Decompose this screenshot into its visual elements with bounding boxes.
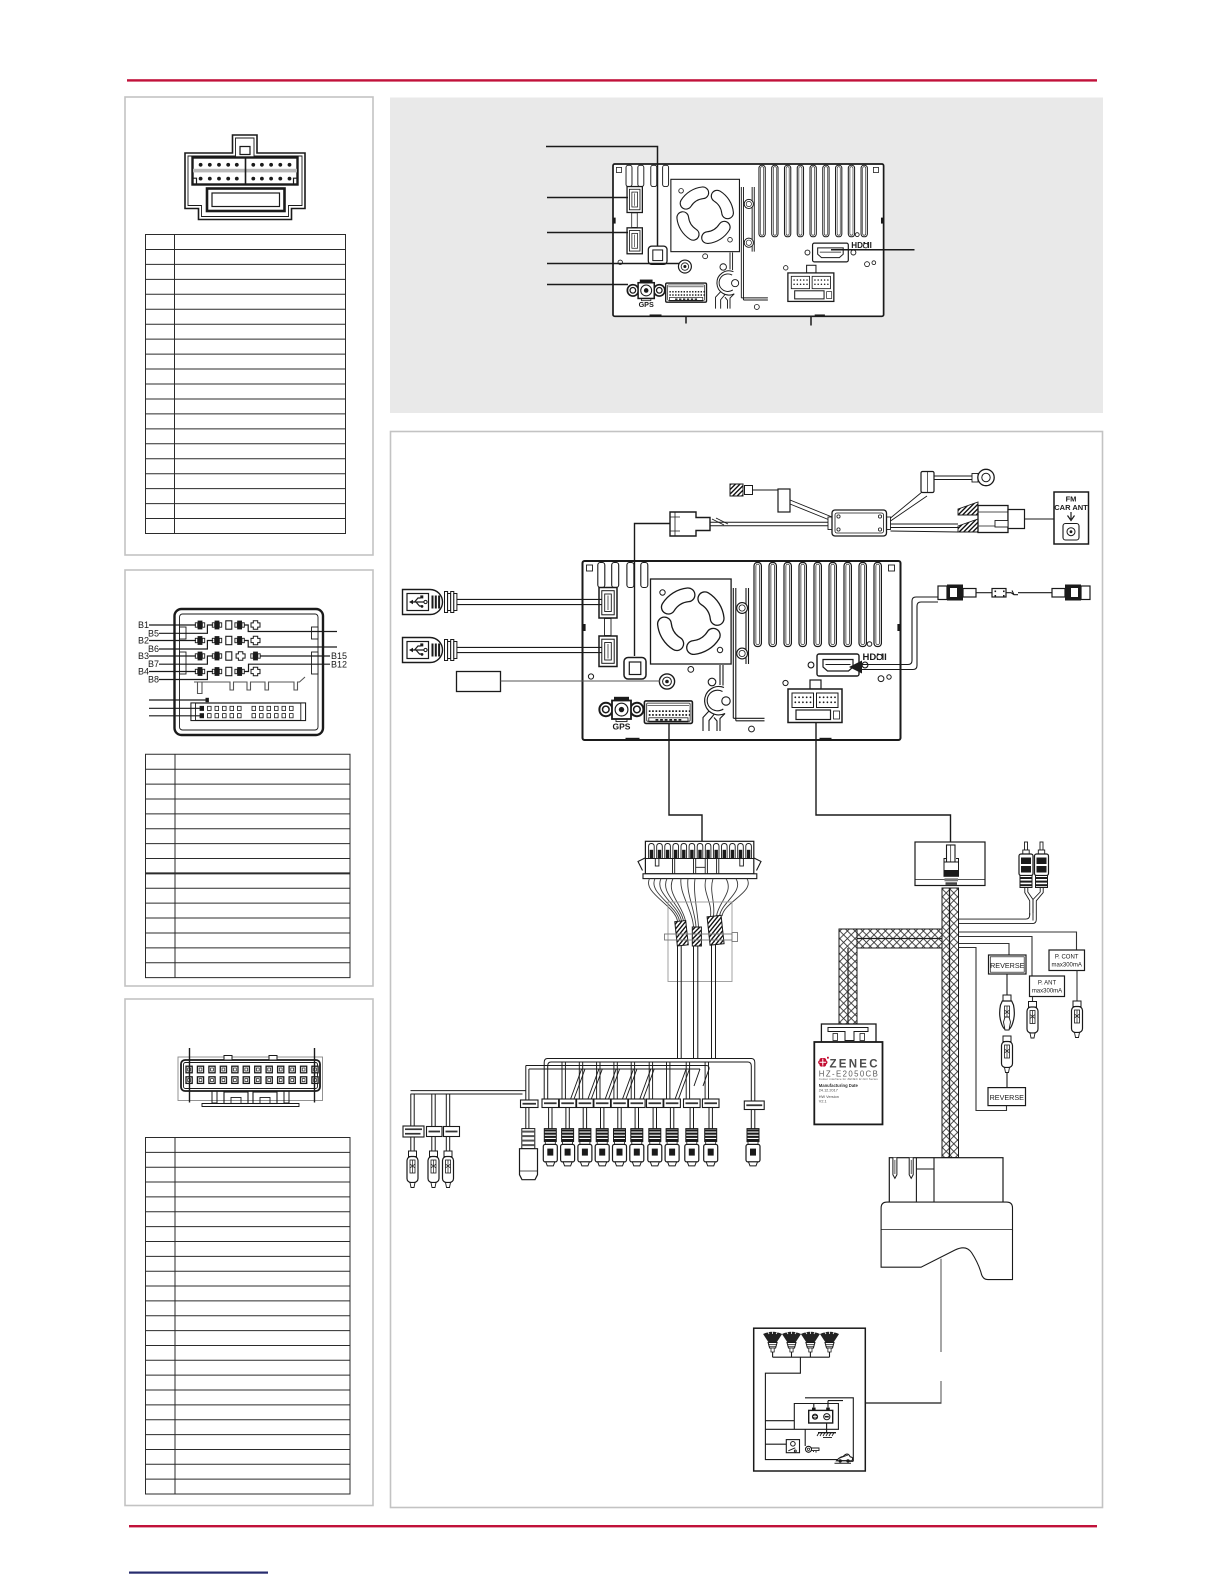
svg-text:V2.1: V2.1 [819,1099,827,1103]
svg-text:24.12.2017: 24.12.2017 [819,1089,838,1093]
svg-text:P. CONT: P. CONT [1055,955,1079,961]
svg-text:REVERSE: REVERSE [990,1093,1025,1102]
svg-text:Manufacturing Date: Manufacturing Date [819,1083,859,1088]
svg-text:Colour interface for ZENEC E>G: Colour interface for ZENEC E>GO Series [819,1077,879,1081]
svg-text:B5: B5 [148,628,159,638]
svg-text:B8: B8 [148,675,159,685]
svg-text:B12: B12 [331,659,347,669]
svg-text:CAR ANT: CAR ANT [1054,503,1088,512]
svg-text:B7: B7 [148,659,159,669]
svg-text:B6: B6 [148,644,159,654]
svg-text:HW Version: HW Version [819,1095,839,1099]
svg-text:P. ANT: P. ANT [1038,981,1057,987]
svg-text:max300mA: max300mA [1052,963,1082,969]
svg-text:REVERSE: REVERSE [990,961,1025,970]
svg-text:max300mA: max300mA [1032,989,1062,995]
